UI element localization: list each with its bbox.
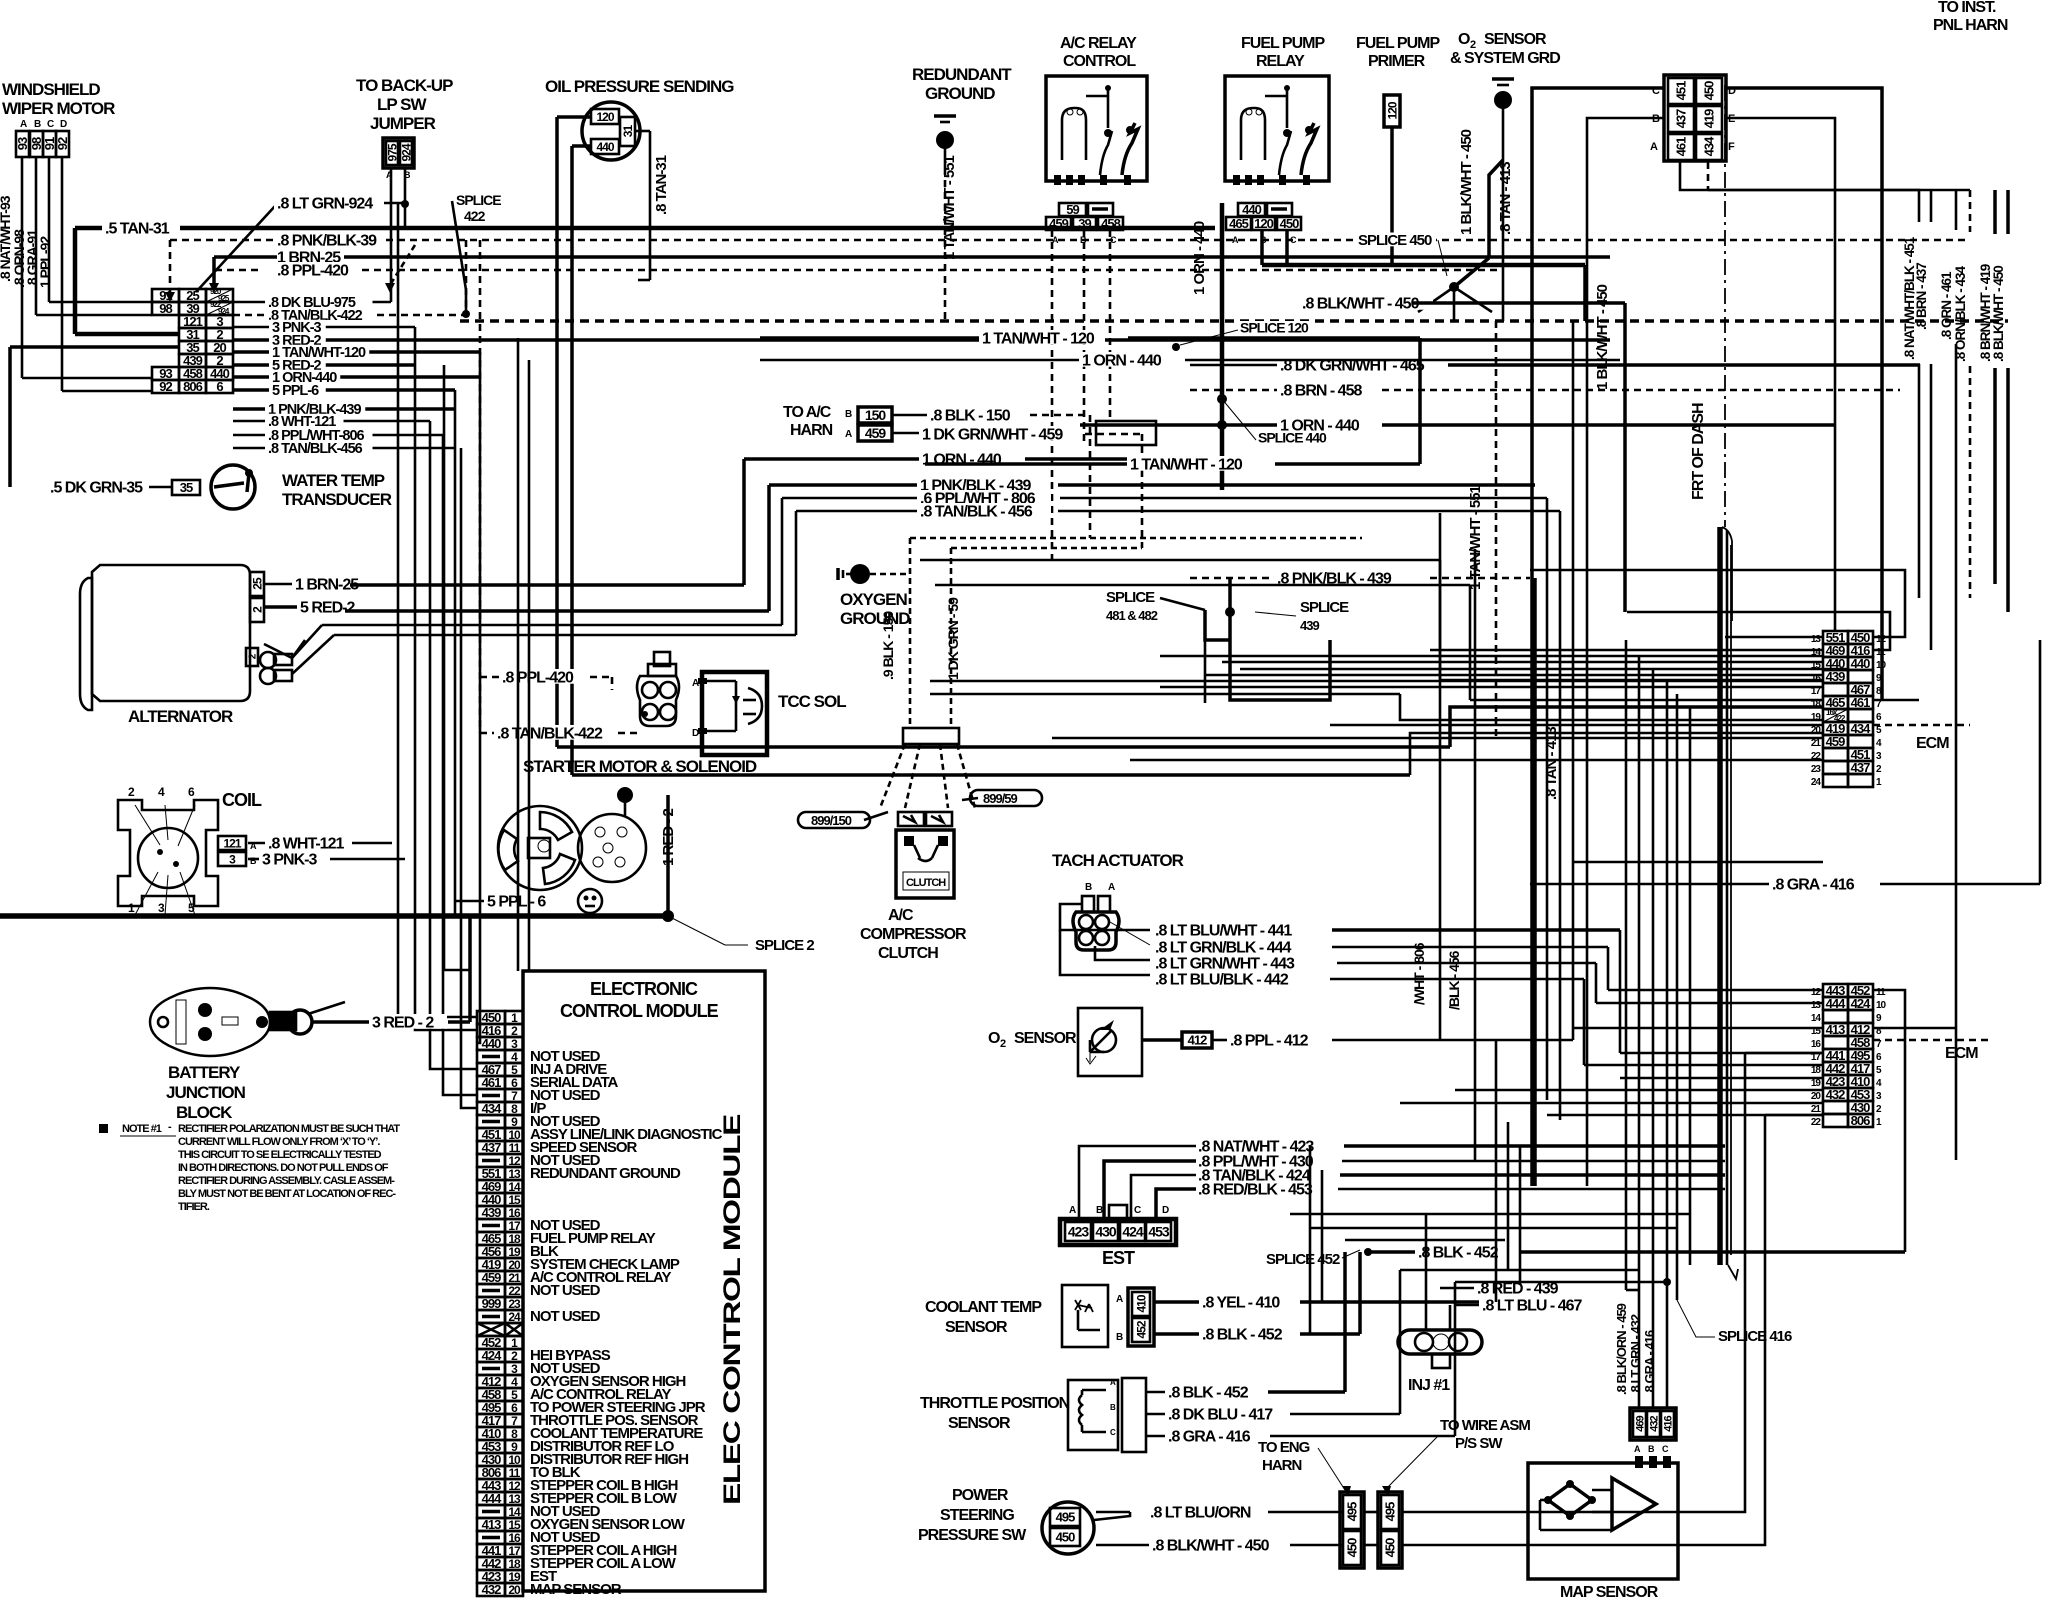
water temp transducer [172, 480, 200, 495]
svg-text:PRIMER: PRIMER [1368, 53, 1426, 70]
svg-text:439: 439 [1300, 618, 1319, 633]
svg-text:OXYGEN: OXYGEN [840, 590, 907, 609]
svg-text:459: 459 [865, 425, 887, 441]
svg-text:924: 924 [399, 143, 413, 161]
svg-text:ALTERNATOR: ALTERNATOR [128, 707, 233, 726]
wire row 1 ORN-440 [233, 375, 480, 379]
wire PPL/WHT-806 center [782, 497, 918, 500]
svg-text:121: 121 [223, 836, 241, 850]
svg-text:SENSOR: SENSOR [948, 1415, 1011, 1432]
wire TAN-413 from ground [1502, 160, 1505, 321]
wire ORN-440 vertical [1220, 203, 1225, 490]
svg-text:.8 BLK - 452: .8 BLK - 452 [1202, 1326, 1283, 1343]
alternator body [80, 578, 92, 710]
note #1 text [99, 1121, 400, 1213]
svg-text:FRT OF DASH: FRT OF DASH [1690, 403, 1707, 500]
svg-text:.8 GRA - 416: .8 GRA - 416 [1772, 876, 1855, 893]
ecm lower right connections [1873, 990, 1905, 1252]
svg-text:.8 GRA - 416: .8 GRA - 416 [1168, 1428, 1251, 1445]
center vertical bundle down [1204, 640, 1207, 703]
svg-text:899/150: 899/150 [811, 813, 852, 828]
tach wire labels [1152, 922, 1326, 937]
gra-416 long wire [1530, 883, 1770, 886]
svg-text:/WHT - 806: /WHT - 806 [1411, 942, 1427, 1005]
left-center vertical bundle [517, 338, 520, 971]
svg-text:461: 461 [1674, 137, 1689, 156]
bottom center crossing verticals [1309, 1146, 1312, 1334]
ECM conn pin 21/4 [1823, 735, 1848, 748]
ECM pin 2 HEI BYPASS [477, 1349, 505, 1362]
svg-text:424: 424 [1122, 1224, 1144, 1240]
svg-text:450: 450 [1280, 216, 1299, 231]
splice 440 callout [1255, 431, 1331, 444]
ECM pin 23 999 [477, 1297, 505, 1310]
ECM pin 10 ASSY LINE/LINK DIAGNOSTIC [477, 1128, 505, 1141]
svg-text:458: 458 [1101, 216, 1120, 231]
wire row .8 PPL/WHT-806 [233, 434, 443, 437]
run 760 [1130, 759, 1823, 762]
ECM pin 11 SPEED SENSOR [477, 1141, 505, 1154]
wire TAN-31 long run [168, 226, 1215, 231]
tps wire labels [1165, 1384, 1267, 1399]
svg-text:ELEC CONTROL MODULE: ELEC CONTROL MODULE [719, 1114, 746, 1505]
bold horizontal 265 [1262, 263, 1585, 268]
svg-text:A/C: A/C [888, 907, 914, 924]
ECM lower conn pin 18/5 [1823, 1062, 1848, 1075]
svg-text:PRESSURE SW: PRESSURE SW [918, 1527, 1027, 1544]
svg-text:.8 TAN/BLK - 456: .8 TAN/BLK - 456 [920, 503, 1033, 520]
battery junction block [150, 988, 270, 1122]
dashed TAN/WHT-551 vertical right [1495, 321, 1498, 740]
svg-text:.8 LT GRN-924: .8 LT GRN-924 [277, 195, 373, 212]
est area vertical bundle [1495, 1040, 1498, 1302]
svg-text:SPLICE 440: SPLICE 440 [1258, 430, 1327, 446]
svg-text:5 PPL-6: 5 PPL-6 [272, 383, 319, 399]
svg-text:TO INST.: TO INST. [1938, 0, 1996, 16]
svg-text:O: O [1458, 31, 1470, 48]
stack arrows from above [214, 255, 277, 259]
svg-text:CONTROL MODULE: CONTROL MODULE [560, 1001, 719, 1021]
svg-text:453: 453 [1148, 1224, 1170, 1240]
svg-text:120: 120 [596, 110, 614, 124]
back-up lamp switch jumper [356, 76, 453, 180]
wire F ORN/BLK-434 dashed [1707, 162, 1710, 190]
oil pressure sending unit [545, 77, 734, 160]
TCC sol box [702, 672, 767, 755]
wire BRN-458 row [1190, 389, 1278, 392]
ECM lower conn pin 15/8 [1823, 1023, 1848, 1036]
svg-text:410: 410 [1134, 1294, 1148, 1312]
wire DK GRN/WHT-465 row [1190, 364, 1278, 367]
left connector stack [152, 289, 179, 302]
svg-text:EST: EST [1102, 1248, 1135, 1268]
ECM pin 8 I/P [477, 1102, 505, 1115]
svg-text:92: 92 [55, 137, 70, 150]
svg-text:D: D [1162, 1205, 1169, 1216]
svg-text:SPLICE 416: SPLICE 416 [1718, 1328, 1792, 1345]
svg-text:COMPRESSOR: COMPRESSOR [860, 926, 967, 943]
ECM pin 6 TO POWER STEERING JPR [477, 1401, 505, 1414]
svg-text:TO BACK-UP: TO BACK-UP [356, 76, 453, 95]
svg-text:.8 PNK/BLK-39: .8 PNK/BLK-39 [277, 232, 377, 249]
svg-text:CLUTCH: CLUTCH [878, 945, 938, 962]
wire TAN/WHT-120 rows [760, 336, 980, 340]
svg-text:A: A [1650, 141, 1658, 153]
wire DK GRN/WHT-459 [892, 432, 920, 435]
wire row 5 PPL-6 [233, 388, 455, 392]
ECM conn pin 19/6 [1823, 709, 1848, 722]
ECM lower conn pin 17/6 [1823, 1049, 1848, 1062]
svg-text:RELAY: RELAY [1256, 53, 1305, 70]
svg-text:B: B [34, 119, 41, 130]
ps switch wires [1094, 1512, 1130, 1520]
fuel pump relay [1225, 35, 1329, 185]
svg-text:OIL PRESSURE SENDING: OIL PRESSURE SENDING [545, 77, 734, 96]
svg-text:.8 PPL-420: .8 PPL-420 [277, 262, 349, 279]
oval terminal 899/59 [970, 790, 1042, 806]
wire into sender 440 [572, 144, 591, 148]
wire TAN-31 from sender [635, 130, 650, 133]
svg-text:120: 120 [1385, 101, 1399, 119]
svg-text:LP SW: LP SW [377, 95, 427, 114]
svg-text:.5 DK GRN-35: .5 DK GRN-35 [50, 479, 143, 496]
svg-text:10: 10 [1876, 1000, 1887, 1011]
svg-text:CLUTCH: CLUTCH [906, 877, 946, 889]
svg-text:SPLICE 450: SPLICE 450 [1358, 232, 1432, 249]
bottom long horizontals [1455, 1281, 1667, 1284]
svg-text:1 ORN - 440: 1 ORN - 440 [1082, 352, 1162, 369]
svg-text:FUEL PUMP: FUEL PUMP [1241, 35, 1325, 52]
svg-text:TACH ACTUATOR: TACH ACTUATOR [1052, 851, 1184, 870]
svg-text:B: B [1085, 882, 1092, 893]
svg-text:1 BLK/WHT - 450: 1 BLK/WHT - 450 [1594, 284, 1611, 390]
ECM lower conn pin 22/1 [1823, 1114, 1848, 1127]
ECM lower conn pin 12/11 [1823, 984, 1848, 997]
ECM pin 13 REDUNDANT GROUND [477, 1167, 505, 1180]
wire row 3 PNK-3 [233, 326, 415, 329]
svg-text:B: B [1116, 1332, 1123, 1343]
svg-text:REDUNDANT GROUND: REDUNDANT GROUND [530, 1165, 681, 1182]
ECM pin 15 440 [477, 1193, 505, 1206]
windshield wiper motor [2, 80, 115, 157]
ECM pin 7 THROTTLE POS. SENSOR [477, 1414, 505, 1427]
wire BLK-452 main [1368, 1250, 1416, 1254]
svg-text:1 RED - 2: 1 RED - 2 [660, 808, 677, 866]
svg-text:423: 423 [1068, 1224, 1090, 1240]
EST elbow wires to pins [1079, 1146, 1196, 1219]
svg-text:975: 975 [385, 143, 399, 161]
svg-text:.8 RED/BLK - 453: .8 RED/BLK - 453 [1198, 1181, 1313, 1198]
tach wire drops to ECM table [1619, 930, 1622, 1053]
wire PPL-6 [455, 900, 545, 903]
ECM pin 14 469 [477, 1180, 505, 1193]
alternator lug terminals [260, 652, 276, 668]
svg-text:P/S SW: P/S SW [1455, 1435, 1503, 1452]
bold ground bus wire [0, 913, 668, 919]
ECM pin 16 439 [477, 1206, 505, 1219]
svg-text:/BLK - 456: /BLK - 456 [1446, 950, 1462, 1010]
svg-text:.8 TAN/BLK-422: .8 TAN/BLK-422 [497, 725, 603, 742]
svg-text:.8 GRA - 416: .8 GRA - 416 [1642, 1330, 1657, 1395]
svg-text:450: 450 [1383, 1538, 1398, 1557]
map sensor connector [1630, 1408, 1676, 1454]
svg-text:POWER: POWER [952, 1487, 1009, 1504]
svg-text:FUEL PUMP: FUEL PUMP [1356, 35, 1440, 52]
oxygen ground symbol [836, 568, 840, 580]
wire RED-2 vertical [666, 795, 670, 916]
ECM pin 8 COOLANT TEMPERATURE [477, 1427, 505, 1440]
svg-text:3 PNK-3: 3 PNK-3 [262, 851, 317, 868]
svg-text:RECTIFIER POLARIZATION MUST BE: RECTIFIER POLARIZATION MUST BE SUCH THAT [178, 1123, 400, 1135]
svg-text:21: 21 [1811, 1104, 1822, 1115]
svg-text:.8 LT BLU/WHT - 441: .8 LT BLU/WHT - 441 [1155, 922, 1292, 939]
svg-text:.8 BLK - 452: .8 BLK - 452 [1168, 1384, 1249, 1401]
mid horizontal runs to right [920, 559, 1440, 562]
svg-text:TRANSDUCER: TRANSDUCER [282, 490, 392, 509]
EST distributor connector [1060, 1205, 1176, 1245]
svg-text:A: A [1108, 882, 1115, 893]
ECM pin 6 SERIAL DATA [477, 1076, 505, 1089]
svg-text:SPLICE 452: SPLICE 452 [1266, 1251, 1340, 1268]
electronic control module box [523, 971, 765, 1591]
svg-text:ELECTRONIC: ELECTRONIC [590, 979, 698, 999]
svg-text:24: 24 [1811, 777, 1822, 788]
wire PNK-3 [248, 858, 262, 861]
svg-text:RECTIFIER DURING ASSEMBLY. CA: RECTIFIER DURING ASSEMBLY. CASLE ASSEM- [178, 1175, 395, 1187]
ECM pin 5 A/C CONTROL RELAY [477, 1388, 505, 1401]
svg-text:.8 LT GRN/WHT - 443: .8 LT GRN/WHT - 443 [1155, 955, 1295, 972]
svg-text:440: 440 [1242, 202, 1261, 217]
svg-text:.8 PPL - 412: .8 PPL - 412 [1230, 1032, 1309, 1049]
tach actuator wires [1060, 904, 1150, 930]
vertical feeder WHT-121 [430, 421, 477, 1069]
svg-text:1 BLK/WHT - 450: 1 BLK/WHT - 450 [1458, 129, 1475, 235]
svg-text:TIFIER.: TIFIER. [178, 1201, 210, 1213]
ECM pin 11 TO BLK [477, 1466, 505, 1479]
svg-text:THROTTLE POSITION: THROTTLE POSITION [920, 1395, 1070, 1412]
wire BLK-150 [892, 414, 928, 417]
svg-text:450: 450 [1345, 1538, 1360, 1557]
wire row 3 RED-2 [233, 338, 1610, 342]
dashed bus 321 [460, 319, 2008, 323]
wire 93 NAT/WHT [21, 157, 24, 378]
wire LT GRN-924 horizontal [362, 202, 405, 205]
svg-text:14: 14 [1811, 1013, 1822, 1024]
svg-text:.8 DK BLU - 417: .8 DK BLU - 417 [1168, 1406, 1273, 1423]
A/C relay dashed drops [1051, 230, 1054, 560]
svg-text:.8 LT GRN - 432: .8 LT GRN - 432 [1628, 1314, 1643, 1395]
svg-text:1 TAN/WHT - 120: 1 TAN/WHT - 120 [1130, 456, 1243, 473]
wire DK GRN-35 [8, 347, 12, 487]
alternator connector 2 [250, 598, 264, 622]
starter motor and solenoid [498, 757, 757, 890]
svg-text:GROUND: GROUND [840, 609, 910, 628]
svg-text:465: 465 [1229, 216, 1248, 231]
wire ORN-440 row2 [1080, 423, 1278, 427]
svg-text:D: D [60, 119, 67, 130]
svg-text:THIS CIRCUIT TO SE ELECTRICALL: THIS CIRCUIT TO SE ELECTRICALLY TESTED [178, 1149, 382, 1161]
horizontal 862 [1573, 861, 1823, 864]
svg-text:5 RED-2: 5 RED-2 [300, 599, 355, 616]
ECM lower conn pin 19/4 [1823, 1075, 1848, 1088]
wire TAN/WHT-551 dashed [944, 168, 947, 321]
ECM pin 17 STEPPER COIL A HIGH [477, 1544, 505, 1557]
wire TAN/BLK-422 lower dashed [480, 732, 495, 735]
svg-text:.8 LT BLU/ORN: .8 LT BLU/ORN [1150, 1504, 1251, 1521]
svg-text:806: 806 [1851, 1113, 1870, 1128]
svg-text:SPLICE: SPLICE [1300, 599, 1349, 616]
rectifier cable [256, 1002, 345, 1034]
ECM lower conn pin 16/7 [1823, 1036, 1848, 1049]
ECM pin 17 NOT USED [477, 1219, 505, 1232]
svg-text:419: 419 [1702, 109, 1717, 128]
vertical feeder TAN/WHT-120 [477, 352, 480, 1043]
svg-text:WINDSHIELD: WINDSHIELD [2, 80, 100, 99]
svg-text:39: 39 [1078, 216, 1091, 231]
svg-text:495: 495 [1383, 1502, 1398, 1521]
svg-text:430: 430 [1095, 1224, 1117, 1240]
svg-text:A: A [20, 119, 27, 130]
ECM pin 19 EST [477, 1570, 505, 1583]
dashed loop 459 [1096, 421, 1156, 445]
svg-text:A: A [1069, 1205, 1076, 1216]
svg-text:23: 23 [1811, 764, 1822, 775]
svg-text:1 BRN-25: 1 BRN-25 [295, 576, 359, 593]
svg-text:NOT USED: NOT USED [530, 1308, 601, 1325]
svg-text:NOT USED: NOT USED [530, 1282, 601, 1299]
svg-text:13: 13 [1811, 634, 1822, 645]
svg-text:INJ #1: INJ #1 [1408, 1377, 1450, 1394]
ECM pin 4 NOT USED [477, 1050, 505, 1063]
wire 91 GRA [48, 157, 51, 302]
wire E right [1726, 118, 1835, 631]
wire LT GRN-924 [404, 168, 407, 229]
svg-text:A: A [845, 429, 852, 440]
wire BRN-25 from alternator [264, 583, 293, 586]
svg-text:98: 98 [159, 301, 172, 316]
svg-text:C: C [47, 119, 54, 130]
ECM pin 12 NOT USED [477, 1154, 505, 1167]
ECM pin 22 NOT USED [477, 1284, 505, 1297]
svg-text:B: B [845, 409, 852, 420]
wire 92 PPL [61, 157, 64, 391]
ECM lower conn pin 21/2 [1823, 1101, 1848, 1114]
wire row .8 WHT-121 [233, 420, 430, 423]
svg-text:11: 11 [1876, 647, 1886, 658]
svg-text:MAP SENSOR: MAP SENSOR [530, 1581, 622, 1598]
svg-text:SENSOR: SENSOR [945, 1319, 1008, 1336]
wire WHT-121 [248, 842, 268, 845]
ps sw wires right [1402, 1053, 1745, 1512]
vertical feeder PPL-6 [454, 390, 457, 916]
wire RED-2 from alternator [264, 605, 298, 609]
svg-text:C: C [1134, 1205, 1141, 1216]
svg-text:.8 BRN - 458: .8 BRN - 458 [1280, 382, 1362, 399]
fuel pump relay connector [1238, 203, 1265, 216]
ECM conn pin 24/1 [1823, 774, 1848, 787]
ECM pin 2 416 [477, 1024, 505, 1037]
svg-text:452: 452 [1134, 1320, 1148, 1338]
ECM conn pin 13/12 [1823, 631, 1848, 644]
svg-text:BLOCK: BLOCK [176, 1103, 233, 1122]
ECM pin 4 OXYGEN SENSOR HIGH [477, 1375, 505, 1388]
svg-text:19: 19 [1811, 712, 1822, 723]
svg-text:STARTER MOTOR & SOLENOID: STARTER MOTOR & SOLENOID [523, 757, 757, 776]
svg-text:ECM: ECM [1945, 1045, 1978, 1062]
ECM pin 20 MAP SENSOR [477, 1583, 505, 1596]
svg-text:.8 BLK/WHT - 450: .8 BLK/WHT - 450 [1152, 1537, 1270, 1554]
alternator connector 25 [250, 572, 264, 596]
svg-text:.8 BLK/ORN - 459: .8 BLK/ORN - 459 [1614, 1303, 1629, 1395]
injector #1 [1440, 1287, 1475, 1290]
svg-text:.8 BLK/WHT - 450: .8 BLK/WHT - 450 [1302, 295, 1420, 312]
svg-text:D: D [692, 728, 699, 739]
trunk verticals along dash wall [1625, 640, 1628, 1290]
svg-text:31: 31 [621, 125, 635, 138]
ecm upper table left connections [1725, 636, 1823, 639]
svg-text:5 PPL - 6: 5 PPL - 6 [487, 893, 546, 910]
vertical feeder RED-2 [444, 365, 470, 970]
svg-text:1 DK GRN - 59: 1 DK GRN - 59 [945, 597, 961, 680]
svg-text:WATER TEMP: WATER TEMP [282, 471, 385, 490]
wire PNK/BLK-439 dashed right [1190, 577, 1275, 580]
ECM pin 10 DISTRIBUTOR REF HIGH [477, 1453, 505, 1466]
tan/blk-456 vertical [1474, 549, 1477, 1160]
ECM lower conn pin 14/9 [1823, 1010, 1848, 1023]
svg-text:422: 422 [464, 208, 486, 224]
svg-text:3 RED - 2: 3 RED - 2 [372, 1014, 434, 1031]
wire PPL-412 [1142, 1038, 1182, 1042]
wire 120 drop [1260, 230, 1264, 265]
splice 120 callout [1237, 321, 1313, 334]
vertical feeder PNK-3 to ECM [415, 327, 477, 1030]
TCC solenoid connector 4pin [637, 652, 679, 726]
wire into sender 120 [557, 115, 591, 119]
dashed drop 422 [465, 240, 468, 314]
right vertical BRN/WHT-419 [1993, 190, 1997, 234]
svg-text:20: 20 [508, 1583, 521, 1597]
svg-text:59: 59 [1066, 202, 1079, 217]
svg-text:CONTROL: CONTROL [1063, 53, 1136, 70]
oval terminal 899/150 [798, 812, 870, 828]
ECM pin 24 NOT USED [477, 1310, 505, 1323]
svg-text:.8 BLK - 452: .8 BLK - 452 [1418, 1244, 1499, 1261]
A/C relay control [1046, 35, 1147, 185]
svg-text:35: 35 [180, 480, 193, 495]
bold run 707 [557, 745, 1450, 749]
EST wire labels [1195, 1138, 1329, 1153]
svg-text:NOTE #1: NOTE #1 [122, 1123, 162, 1135]
svg-text:412: 412 [1188, 1033, 1207, 1048]
svg-text:416: 416 [1662, 1415, 1674, 1431]
ECM pin 3 440 [477, 1037, 505, 1050]
right vertical BLK/WHT-450 [2006, 190, 2010, 234]
ECM pin 7 NOT USED [477, 1089, 505, 1102]
svg-text:.5 TAN-31: .5 TAN-31 [105, 220, 170, 237]
wire DK BLU-975 [390, 168, 393, 302]
wire TAN/WHT-120 lower [925, 462, 1128, 466]
ECM conn pin 17/8 [1823, 683, 1848, 696]
svg-text:.8 YEL - 410: .8 YEL - 410 [1202, 1294, 1280, 1311]
svg-text:.8 PPL-420: .8 PPL-420 [502, 669, 574, 686]
svg-text:11: 11 [1876, 987, 1886, 998]
svg-text:1 DK GRN/WHT - 459: 1 DK GRN/WHT - 459 [922, 426, 1063, 443]
svg-text:SENSOR: SENSOR [1484, 31, 1547, 48]
svg-text:SPLICE 2: SPLICE 2 [755, 937, 814, 954]
ECM pin 14 NOT USED [477, 1505, 505, 1518]
bold run 720 [572, 773, 1410, 777]
svg-text:SENSOR: SENSOR [1014, 1030, 1077, 1047]
